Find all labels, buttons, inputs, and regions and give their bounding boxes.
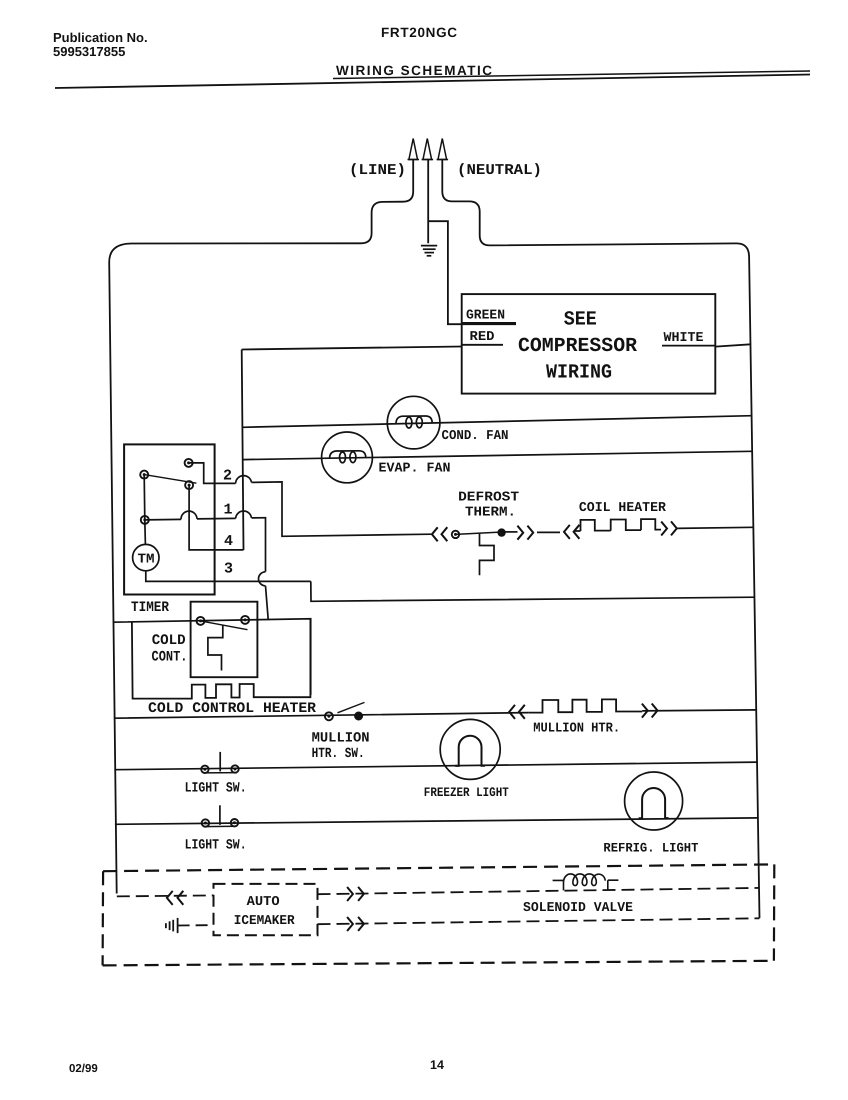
- wire hop rail1-vert over rail3: [259, 572, 266, 586]
- defrost therm blade: [456, 532, 506, 535]
- cold control blade: [201, 621, 248, 630]
- svg-text:FRT20NGC: FRT20NGC: [381, 25, 457, 40]
- cold control contact dot1: [197, 617, 205, 625]
- wire white lead: [715, 344, 750, 346]
- wire green underline: [462, 322, 516, 324]
- timer switch blade: [144, 475, 196, 484]
- svg-text:14: 14: [430, 1058, 444, 1072]
- wire evap fan rail: [243, 451, 752, 459]
- header rule long: [55, 75, 810, 89]
- wire B to D: [143, 475, 146, 520]
- wire neutral prong to right border: [442, 160, 759, 919]
- lamp freezer light: [440, 719, 500, 779]
- plug prong arrow line: [408, 139, 449, 160]
- solenoid valve coil: [553, 874, 619, 890]
- svg-text:MULLION HTR.: MULLION HTR.: [533, 721, 620, 736]
- cold control rail: [113, 619, 311, 695]
- svg-text:2: 2: [223, 468, 232, 485]
- icemaker row2 wire left: [178, 924, 214, 926]
- svg-text:5995317855: 5995317855: [53, 44, 125, 59]
- defrost therm contact dot1: [452, 531, 459, 538]
- motor evap fan: [322, 432, 373, 483]
- svg-text:SOLENOID VALVE: SOLENOID VALVE: [523, 901, 633, 916]
- timer terminal 2 wire: [189, 463, 431, 536]
- header text publication no: [53, 25, 492, 1075]
- svg-text:LIGHT SW.: LIGHT SW.: [185, 838, 247, 854]
- svg-text:CONT.: CONT.: [152, 650, 188, 666]
- svg-text:DEFROST: DEFROST: [458, 491, 519, 506]
- wire green lead: [428, 221, 516, 324]
- wire line prong to left border: [109, 160, 413, 894]
- timer contact dot C: [185, 481, 193, 489]
- compressor box: [462, 294, 716, 394]
- svg-text:WIRING: WIRING: [546, 362, 612, 385]
- mullion rail: [114, 710, 757, 718]
- defrost thermostat chevron in: [432, 527, 447, 541]
- wire TM to rail3: [146, 571, 311, 582]
- wire white underline: [662, 345, 715, 347]
- light switch 1: [201, 752, 239, 773]
- svg-text:FREEZER LIGHT: FREEZER LIGHT: [424, 785, 509, 800]
- cold control bellows zigzag: [208, 625, 223, 670]
- light switch 2: [202, 805, 239, 826]
- wire coil heater to right border: [677, 527, 753, 528]
- svg-text:EVAP. FAN: EVAP. FAN: [379, 462, 451, 477]
- icemaker chevron in: [167, 891, 183, 905]
- svg-text:COLD CONTROL HEATER: COLD CONTROL HEATER: [148, 701, 316, 717]
- wire rail3 elbow to right border: [311, 581, 755, 601]
- mullion heater chevron in: [509, 705, 525, 719]
- cold control heater loop: [132, 619, 311, 699]
- cold control contact dot2: [241, 616, 249, 624]
- motor cond fan: [387, 396, 440, 449]
- freezer light rail: [114, 762, 757, 770]
- svg-text:COIL HEATER: COIL HEATER: [579, 501, 667, 516]
- heater coil element: [574, 519, 661, 531]
- timer box: [124, 444, 215, 594]
- icemaker row2 wire right: [318, 918, 760, 924]
- mullion switch dot2: [355, 712, 363, 720]
- text SEE COMPRESSOR WIRING: [518, 309, 637, 385]
- icemaker dashed enclosure: [103, 864, 775, 965]
- icemaker row2 chevron out: [347, 917, 364, 931]
- cold control inner box: [191, 602, 258, 678]
- icemaker row2 ground symbol: [166, 918, 178, 933]
- svg-text:REFRIG. LIGHT: REFRIG. LIGHT: [603, 841, 698, 856]
- svg-text:SEE: SEE: [564, 309, 597, 332]
- wire trunk vertical: [242, 350, 244, 551]
- wire red lead: [242, 347, 462, 350]
- svg-text:(NEUTRAL): (NEUTRAL): [457, 162, 542, 179]
- svg-text:(LINE): (LINE): [349, 162, 406, 179]
- svg-text:COND. FAN: COND. FAN: [442, 429, 509, 444]
- coil heater chevron in: [564, 525, 579, 539]
- wire red underline: [462, 344, 503, 346]
- wire to coil heater: [537, 531, 560, 533]
- wire cond fan rail: [242, 416, 752, 428]
- mullion heater chevron out: [642, 704, 658, 718]
- svg-text:THERM.: THERM.: [465, 506, 516, 521]
- svg-text:1: 1: [224, 502, 233, 519]
- header rule under title: [333, 71, 810, 79]
- wire hop rail1 over trunk: [236, 511, 252, 518]
- svg-text:WHITE: WHITE: [664, 331, 704, 346]
- svg-text:3: 3: [224, 561, 233, 578]
- svg-text:ICEMAKER: ICEMAKER: [234, 914, 296, 929]
- svg-text:Publication No.: Publication No.: [53, 30, 148, 45]
- svg-text:TIMER: TIMER: [131, 600, 169, 616]
- coil heater chevron out: [661, 521, 677, 535]
- mullion heater element: [529, 699, 642, 712]
- mullion switch dot1: [325, 712, 333, 720]
- mullion switch blade: [338, 702, 365, 712]
- svg-text:COMPRESSOR: COMPRESSOR: [518, 335, 637, 358]
- lamp refrig light: [625, 772, 683, 830]
- svg-text:MULLION: MULLION: [312, 731, 370, 747]
- ground symbol: [421, 246, 437, 256]
- timer contact dot A: [185, 459, 193, 467]
- defrost chevron out: [517, 526, 533, 540]
- defrost therm contact dot2: [498, 529, 505, 536]
- svg-text:AUTO: AUTO: [247, 895, 280, 910]
- icemaker row1 wire right: [318, 888, 760, 894]
- svg-text:02/99: 02/99: [69, 1063, 98, 1075]
- timer contact dot D: [141, 516, 149, 524]
- wire hop rail1 over C-wire: [181, 511, 197, 519]
- refrig light rail: [115, 818, 758, 824]
- svg-text:HTR. SW.: HTR. SW.: [312, 746, 365, 762]
- svg-text:GREEN: GREEN: [466, 309, 505, 324]
- wire C to terminal 4 rail: [189, 485, 243, 550]
- wire defrost dot2 to chevron: [505, 531, 518, 533]
- wire ground prong: [427, 160, 429, 244]
- timer contact dot B: [140, 471, 148, 479]
- wire D to TM: [144, 520, 147, 545]
- icemaker row1 chevron out: [347, 887, 364, 901]
- wire hop rail2 over trunk: [236, 476, 252, 484]
- svg-text:LIGHT SW.: LIGHT SW.: [185, 781, 247, 797]
- defrost therm sensing element: [480, 533, 495, 575]
- timer motor TM: [133, 544, 159, 570]
- auto icemaker dashed box: [214, 884, 318, 935]
- svg-text:COLD: COLD: [152, 633, 186, 649]
- timer terminal 1 wire: [145, 518, 268, 620]
- svg-text:TM: TM: [138, 553, 155, 568]
- svg-text:RED: RED: [470, 330, 495, 345]
- svg-text:4: 4: [224, 533, 233, 550]
- icemaker row1 wire left: [117, 895, 214, 896]
